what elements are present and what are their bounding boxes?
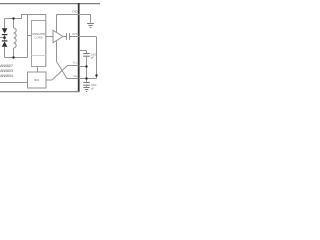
svg-text:AN0604: AN0604 (0, 73, 14, 78)
svg-text:CORE: CORE (35, 35, 43, 39)
svg-text:BIAS: BIAS (34, 79, 39, 82)
svg-text:OUT: OUT (72, 32, 78, 36)
svg-text:GND: GND (72, 10, 78, 14)
